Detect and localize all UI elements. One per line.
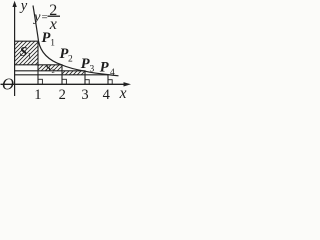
svg-text:x: x	[119, 85, 127, 102]
equation fraction bar	[48, 15, 61, 17]
y-axis arrowhead	[12, 1, 16, 7]
rectangle R3 top edge y=2/3 and right edge x=3	[15, 71, 85, 85]
svg-text:4: 4	[110, 68, 115, 78]
hatched area S2 between y=2/3 and y=1 over [1,2]	[38, 65, 62, 71]
svg-text:y: y	[32, 10, 41, 25]
right-angle foot mark at x=2	[62, 79, 66, 84]
right-angle foot mark at x=4	[108, 80, 112, 85]
rectangle R4 top edge y=1/2 and right edge x=4	[15, 75, 108, 85]
right-angle foot mark at x=3	[85, 80, 89, 85]
svg-text:P: P	[42, 30, 51, 46]
svg-text:P: P	[100, 60, 109, 76]
svg-text:y: y	[19, 0, 28, 14]
hatched area S1 between y=1 and y=2 over [0,1]	[15, 41, 38, 65]
rectangle R2 top edge y=1 and right edge x=2	[15, 65, 62, 85]
svg-text:1: 1	[34, 87, 41, 103]
svg-text:S: S	[20, 44, 28, 59]
x-axis arrowhead	[124, 82, 132, 86]
hatched area S3 between y=1/2 and y=2/3 over [2,3]	[62, 71, 85, 75]
svg-text:1: 1	[50, 39, 55, 49]
svg-text:2: 2	[59, 87, 66, 103]
svg-text:4: 4	[103, 87, 111, 103]
svg-text:P: P	[81, 56, 90, 72]
svg-text:2: 2	[68, 55, 73, 65]
svg-text:O: O	[2, 74, 14, 93]
svg-text:1: 1	[28, 52, 32, 61]
svg-text:3: 3	[81, 87, 88, 103]
right-angle foot mark at x=1	[38, 79, 42, 84]
y-axis	[14, 4, 16, 96]
svg-text:S: S	[46, 64, 51, 74]
svg-text:=: =	[42, 12, 48, 24]
curve y = 2/x	[33, 6, 119, 76]
svg-text:2: 2	[52, 68, 55, 75]
svg-text:3: 3	[90, 65, 95, 75]
rectangle R1 top edge y=2 and right edge x=1	[15, 41, 38, 84]
x-axis	[1, 83, 127, 85]
